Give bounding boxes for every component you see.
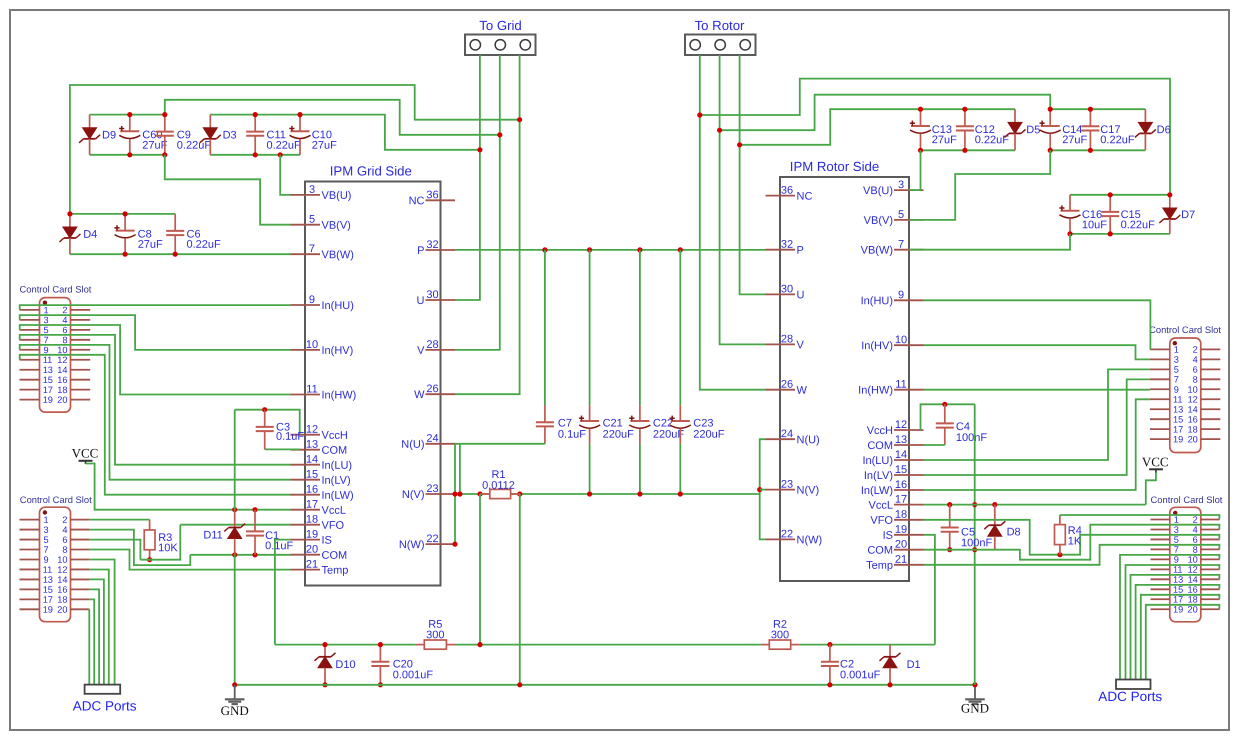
svg-text:VB(V): VB(V) (864, 215, 893, 227)
svg-text:11: 11 (43, 355, 53, 365)
svg-text:N(W): N(W) (399, 539, 425, 551)
pins 17/18 of Control Card Slot top-left (20, 385, 91, 395)
svg-text:P: P (417, 245, 424, 257)
svg-text:15: 15 (895, 464, 907, 476)
wire R1 right drop (519, 494, 521, 685)
resistor R5 (416, 619, 455, 649)
wire C22 drop (639, 250, 641, 405)
pins 15/16 of Control Card Slot bottom-right (1151, 585, 1220, 595)
wire slot2 pin6 to R3 bottom (89, 540, 140, 560)
svg-text:8: 8 (62, 545, 67, 555)
svg-text:2: 2 (62, 515, 67, 525)
svg-text:In(HU): In(HU) (321, 300, 353, 312)
pin 7 VB(W) of U1 (291, 243, 354, 261)
capacitor C2 (821, 645, 881, 685)
pins 17/18 of Control Card Slot top-right (1150, 424, 1220, 434)
svg-text:IPM Grid Side: IPM Grid Side (330, 163, 412, 178)
pin 9 In(HU) of U2 (861, 289, 924, 307)
pins 17/18 of Control Card Slot bottom-left (20, 595, 90, 605)
pin 32 P of U1 (417, 239, 455, 257)
wire VccH column (234, 410, 236, 510)
diode D7 (1159, 195, 1195, 234)
pins 1/2 of Control Card Slot bottom-left (20, 515, 90, 525)
svg-text:11: 11 (43, 565, 53, 575)
pins 9/10 of Control Card Slot bottom-right (1151, 555, 1220, 565)
svg-text:0.22uF: 0.22uF (1100, 134, 1135, 146)
pin 20 COM of U2 (867, 539, 923, 557)
wire ADC right w3 (1131, 575, 1220, 680)
wire slot1 pin7 to In(LU) (20, 335, 291, 465)
pin 26 W of U2 (766, 379, 808, 397)
junction C21 bottom (587, 491, 592, 496)
junction C20 bottom (378, 682, 383, 687)
svg-text:220uF: 220uF (693, 429, 724, 441)
junction C20 top (378, 642, 383, 647)
diode D10 (315, 645, 356, 685)
junction D11 top (232, 507, 237, 512)
pin 12 VccH of U2 (867, 419, 924, 437)
junction rotorwire2-B2 (717, 128, 722, 133)
svg-text:20: 20 (57, 395, 67, 405)
wire To Rotor pin3 down to U (740, 55, 766, 294)
svg-text:28: 28 (426, 339, 438, 351)
svg-text:D4: D4 (83, 229, 97, 241)
wire To Grid pin3 down to W (455, 55, 520, 394)
svg-text:COM: COM (867, 545, 893, 557)
svg-text:11: 11 (306, 383, 317, 395)
capacitor C7 (536, 405, 586, 444)
wire C3 top line (235, 410, 300, 435)
junction C60 top (127, 112, 132, 117)
svg-text:14: 14 (57, 365, 67, 375)
wire to VB(W) right (909, 234, 1070, 250)
svg-text:D1: D1 (907, 659, 921, 671)
pins 11/12 of Control Card Slot top-right (1150, 395, 1220, 405)
wire A top-left bus (70, 85, 520, 214)
svg-text:16: 16 (306, 484, 318, 496)
pins 3/4 of Control Card Slot top-left (20, 315, 91, 325)
svg-text:16: 16 (57, 585, 67, 595)
svg-text:22: 22 (426, 533, 438, 545)
svg-text:GND: GND (961, 700, 989, 715)
svg-text:20: 20 (57, 605, 67, 615)
junction C2 bottom (827, 682, 832, 687)
svg-text:27uF: 27uF (1062, 134, 1087, 146)
svg-text:N(U): N(U) (796, 434, 819, 446)
svg-text:13: 13 (306, 439, 318, 451)
svg-text:U: U (796, 289, 804, 301)
pins 3/4 of Control Card Slot bottom-right (1151, 525, 1220, 535)
svg-text:12: 12 (1188, 565, 1198, 575)
junction wireC-gridwire1 (477, 147, 482, 152)
pins 19/20 of Control Card Slot top-left (20, 395, 91, 405)
pins 11/12 of Control Card Slot bottom-left (20, 565, 90, 575)
svg-text:D7: D7 (1181, 209, 1195, 221)
wire group2 bottom rail (210, 154, 300, 156)
svg-text:10: 10 (57, 345, 67, 355)
junction C8 bottom (123, 252, 128, 257)
wire R2 line right (799, 644, 935, 646)
svg-text:4: 4 (62, 525, 67, 535)
svg-text:23: 23 (781, 479, 793, 491)
wire C4 column (974, 404, 976, 685)
svg-text:3: 3 (309, 184, 315, 196)
svg-text:3: 3 (1174, 525, 1179, 535)
wire C22 to NV (639, 444, 641, 494)
junction C10 top (297, 112, 302, 117)
svg-text:2: 2 (1193, 515, 1198, 525)
pins 13/14 of Control Card Slot bottom-right (1151, 575, 1220, 585)
junction C1 bottom (252, 552, 257, 557)
pin 12 VccH of U1 (291, 424, 348, 442)
svg-text:NC: NC (796, 191, 812, 203)
pins 7/8 of Control Card Slot bottom-left (20, 545, 90, 555)
svg-text:36: 36 (781, 185, 793, 197)
svg-text:In(HV): In(HV) (321, 345, 353, 357)
pin 19 IS of U1 (291, 529, 332, 547)
pins 13/14 of Control Card Slot bottom-left (20, 575, 90, 585)
wire to VB(U) right (909, 150, 921, 190)
svg-text:In(LW): In(LW) (321, 490, 353, 502)
svg-text:IS: IS (321, 535, 331, 547)
svg-text:19: 19 (306, 529, 318, 541)
junction R2-C2 (827, 642, 832, 647)
pin 15 In(LV) of U1 (291, 469, 351, 487)
svg-text:U: U (417, 295, 425, 307)
junction GND right (972, 682, 977, 687)
svg-text:10: 10 (306, 339, 318, 351)
wire slot2 pin4 to COM (89, 530, 190, 566)
capacitor C15 (1101, 195, 1155, 234)
wire group3 bottom rail VB(W) (70, 253, 291, 255)
svg-text:17: 17 (1173, 595, 1183, 605)
svg-text:In(LU): In(LU) (321, 460, 352, 472)
svg-text:N(V): N(V) (402, 489, 425, 501)
svg-text:VFO: VFO (321, 520, 344, 532)
svg-text:16: 16 (57, 375, 67, 385)
junction R4 bottom (1057, 552, 1062, 557)
wire COM20 right (924, 525, 1220, 560)
wire groupR2 top rail (1050, 108, 1145, 110)
pins 5/6 of Control Card Slot top-left (20, 325, 91, 335)
wire D11 to GND bus (234, 555, 236, 685)
svg-text:0.1uF: 0.1uF (558, 429, 586, 441)
wire C23 drop (679, 250, 681, 405)
wire Temp right (924, 545, 1220, 565)
wire To Rotor pin2 down to V (720, 55, 766, 344)
svg-text:VccH: VccH (321, 430, 347, 442)
svg-text:27uF: 27uF (932, 134, 957, 146)
svg-text:20: 20 (1188, 605, 1198, 615)
svg-text:14: 14 (1188, 575, 1198, 585)
capacitor C13 (910, 109, 957, 150)
junction D8 top (992, 502, 997, 507)
pin 5 VB(V) of U2 (864, 209, 924, 227)
pin 10 In(HV) of U1 (291, 339, 354, 357)
svg-text:VB(W): VB(W) (861, 245, 893, 257)
svg-text:17: 17 (1173, 424, 1183, 434)
svg-text:7: 7 (1174, 545, 1179, 555)
svg-text:D5: D5 (1026, 124, 1040, 136)
svg-text:Control Card Slot: Control Card Slot (19, 284, 91, 295)
svg-text:In(HU): In(HU) (861, 295, 893, 307)
svg-text:1: 1 (43, 305, 48, 315)
svg-text:30: 30 (781, 283, 793, 295)
svg-text:19: 19 (1173, 605, 1183, 615)
svg-text:15: 15 (1173, 414, 1183, 424)
svg-text:COM: COM (321, 445, 347, 457)
svg-text:17: 17 (895, 494, 907, 506)
wire VCC to VccL (86, 464, 291, 510)
svg-text:10K: 10K (158, 542, 178, 554)
svg-text:VCC: VCC (72, 445, 99, 460)
wire C21 drop (589, 250, 591, 405)
junction rotorwire1-A2 (697, 112, 702, 117)
junction C16 bottom (1067, 231, 1072, 236)
wire slot2 pin14 to ADC (89, 579, 104, 684)
wire To Grid pin2 down to V (455, 55, 500, 350)
pin 21 Temp of U2 (866, 554, 923, 572)
wire C group2 rail to grid wire1 (300, 115, 480, 150)
svg-text:VB(W): VB(W) (321, 249, 353, 261)
junction D10 top (322, 642, 327, 647)
diode D3 (200, 115, 237, 155)
wire slot2 pin8 to Temp (89, 550, 290, 570)
wire R4 top to slot pin2 (1060, 515, 1220, 519)
pins 11/12 of Control Card Slot bottom-right (1151, 565, 1220, 575)
wire C2 rotor wire3 to groupR1 rail (740, 109, 921, 145)
svg-text:Temp: Temp (321, 565, 348, 577)
svg-text:9: 9 (43, 555, 48, 565)
svg-text:D9: D9 (102, 130, 116, 142)
svg-text:ADC Ports: ADC Ports (1098, 689, 1162, 704)
diode D1 (880, 645, 921, 685)
junction col-COM20 (972, 547, 977, 552)
svg-text:In(LV): In(LV) (864, 470, 893, 482)
svg-text:10: 10 (57, 555, 67, 565)
svg-text:36: 36 (426, 189, 438, 201)
svg-text:220uF: 220uF (603, 429, 634, 441)
junction wireA-group3 (67, 211, 72, 216)
svg-text:16: 16 (1188, 585, 1198, 595)
pin 13 COM of U1 (291, 439, 348, 457)
svg-text:26: 26 (426, 383, 438, 395)
pin 30 U of U1 (417, 289, 455, 307)
pin 18 VFO of U2 (870, 509, 923, 527)
svg-text:8: 8 (1193, 545, 1198, 555)
svg-text:9: 9 (309, 294, 315, 306)
svg-text:27uF: 27uF (138, 239, 163, 251)
svg-text:7: 7 (43, 545, 48, 555)
svg-text:W: W (414, 389, 425, 401)
junction wireA-gridwire3 (517, 117, 522, 122)
pin 36 NC of U1 (409, 189, 455, 207)
svg-text:D6: D6 (1157, 124, 1171, 136)
wire R5 line right (455, 644, 761, 646)
pins 5/6 of Control Card Slot bottom-right (1151, 535, 1220, 545)
svg-text:D11: D11 (203, 529, 222, 541)
pin 23 N(V) of U2 (766, 479, 820, 497)
junction C17 top (1088, 107, 1093, 112)
svg-text:0.1uF: 0.1uF (265, 540, 293, 552)
svg-text:12: 12 (1188, 395, 1198, 405)
wire N(U) line (455, 443, 545, 445)
pin 14 In(LU) of U1 (291, 454, 353, 472)
svg-text:D8: D8 (1007, 526, 1021, 538)
svg-text:0.001uF: 0.001uF (840, 669, 881, 681)
svg-text:Control Card Slot: Control Card Slot (1150, 494, 1222, 505)
wire slot1 pin11 to In(LW) (20, 355, 291, 495)
svg-text:12: 12 (57, 565, 67, 575)
pins 13/14 of Control Card Slot top-left (20, 365, 91, 375)
resistor R4 (1055, 515, 1082, 555)
wire A2 rotor wire1 to D7 group (700, 79, 1170, 195)
wire slot2 pin12 to ADC (89, 570, 108, 685)
pins 7/8 of Control Card Slot top-left (20, 335, 91, 345)
pin 13 COM of U2 (867, 434, 923, 452)
pin 17 VccL of U1 (291, 499, 346, 517)
pin 5 VB(V) of U1 (291, 214, 351, 232)
svg-text:10uF: 10uF (1082, 219, 1107, 231)
wire To Rotor pin1 down to W (700, 55, 766, 390)
pins 19/20 of Control Card Slot top-right (1150, 434, 1220, 444)
svg-text:P: P (796, 245, 803, 257)
svg-text:2: 2 (62, 305, 67, 315)
pins 5/6 of Control Card Slot top-right (1150, 365, 1220, 375)
svg-text:18: 18 (1188, 424, 1198, 434)
pin 26 W of U1 (414, 383, 455, 401)
svg-text:13: 13 (1173, 575, 1183, 585)
svg-text:22: 22 (781, 528, 793, 540)
svg-text:9: 9 (1174, 385, 1179, 395)
pin 24 N(U) of U2 (766, 428, 820, 446)
svg-text:3: 3 (43, 315, 48, 325)
wire NU-NW link (454, 444, 456, 544)
wire ADC right w5 (1141, 595, 1220, 680)
pin 15 In(LV) of U2 (864, 464, 924, 482)
wire ADC right w4 (1136, 585, 1220, 680)
svg-text:COM: COM (867, 440, 893, 452)
wire R1 left drop (479, 494, 481, 645)
svg-text:VCC: VCC (1142, 454, 1169, 469)
svg-text:19: 19 (43, 605, 53, 615)
pins 13/14 of Control Card Slot top-right (1150, 405, 1220, 415)
svg-text:9: 9 (898, 289, 904, 301)
svg-text:300: 300 (771, 629, 789, 641)
svg-text:0.0112: 0.0112 (482, 480, 515, 492)
diode D5 (1005, 109, 1041, 150)
pin 16 In(LW) of U1 (291, 484, 354, 502)
svg-text:VFO: VFO (870, 515, 893, 527)
junction C7-P (542, 247, 547, 252)
wire groupR3 bottom rail (1070, 233, 1170, 235)
svg-text:24: 24 (426, 433, 438, 445)
pins 9/10 of Control Card Slot bottom-left (20, 555, 90, 565)
junction C23-P (678, 247, 683, 252)
junction GND left (232, 682, 237, 687)
connector J1 To Grid (465, 18, 536, 55)
capacitor C16 (1059, 195, 1107, 234)
svg-text:21: 21 (306, 559, 318, 571)
junction C22-P (637, 247, 642, 252)
svg-text:1: 1 (1174, 515, 1179, 525)
wire C3 bottom lead (264, 448, 266, 450)
junction C12 bottom (962, 148, 967, 153)
svg-text:11: 11 (1173, 395, 1183, 405)
junction R5-R1drop (477, 642, 482, 647)
junction C60 bottom (127, 152, 132, 157)
svg-text:8: 8 (62, 335, 67, 345)
svg-text:100nF: 100nF (956, 432, 987, 444)
wire groupR1 bottom rail (921, 149, 1016, 151)
IC U1 IPM Grid Side (305, 163, 441, 585)
connector ADC Ports right (1098, 680, 1162, 705)
diode D9 (79, 115, 116, 155)
svg-text:8: 8 (1193, 375, 1198, 385)
svg-text:28: 28 (781, 333, 793, 345)
capacitor C6 (166, 214, 221, 254)
wire In(HW) right (924, 389, 1150, 391)
svg-text:17: 17 (306, 499, 318, 511)
resistor R1 (480, 469, 520, 499)
junction C13 bottom (918, 148, 923, 153)
svg-text:4: 4 (1193, 525, 1198, 535)
svg-text:7: 7 (1174, 375, 1179, 385)
svg-text:13: 13 (43, 575, 53, 585)
svg-text:14: 14 (57, 575, 67, 585)
capacitor C5 (941, 505, 993, 550)
wire groupR3 top rail (1070, 194, 1170, 196)
wire GND bus (235, 684, 975, 686)
wire slot1 pin5 to In(HW) (20, 325, 291, 395)
pins 9/10 of Control Card Slot top-left (20, 345, 91, 355)
wire to VB(V) right (909, 150, 1050, 220)
junction rotorwire3-C2 (737, 142, 742, 147)
svg-text:To Rotor: To Rotor (695, 18, 745, 33)
pins 19/20 of Control Card Slot bottom-right (1151, 605, 1220, 615)
pins 3/4 of Control Card Slot top-right (1150, 355, 1220, 365)
junction R3 bottom (147, 557, 152, 562)
wire VFO right (924, 520, 1220, 555)
pin 3 VB(U) of U1 (291, 184, 352, 202)
svg-text:300: 300 (426, 629, 444, 641)
svg-text:3: 3 (1174, 355, 1179, 365)
pin 18 VFO of U1 (291, 514, 345, 532)
pin 32 P of U2 (766, 239, 804, 257)
svg-text:VccH: VccH (867, 425, 893, 437)
svg-text:12: 12 (895, 419, 907, 431)
wire VCC right to VccL (1146, 473, 1156, 505)
pins 5/6 of Control Card Slot bottom-left (20, 535, 90, 545)
svg-text:D3: D3 (223, 130, 237, 142)
connector Control Card Slot top-right (1149, 324, 1221, 453)
junction VB(U) tap (278, 152, 283, 157)
connector ADC Ports left (73, 685, 137, 714)
svg-text:20: 20 (1188, 434, 1198, 444)
pins 19/20 of Control Card Slot bottom-left (20, 605, 90, 615)
wire N bus right vertical (760, 439, 766, 539)
pin 28 V of U1 (417, 339, 455, 357)
wire N right to pin23 (760, 489, 766, 491)
junction C3 top (262, 407, 267, 412)
svg-text:18: 18 (306, 514, 318, 526)
wire In(HU) right (924, 300, 1151, 349)
capacitor C1 (246, 510, 294, 555)
wire C7 drop (544, 250, 546, 405)
pin 20 COM of U1 (291, 544, 348, 562)
wire COM13 right (924, 444, 945, 446)
wire C3 bottom to COM13 (265, 448, 300, 450)
